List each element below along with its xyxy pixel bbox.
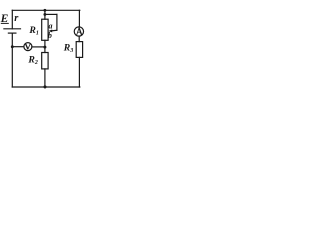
battery long plate bbox=[4, 28, 21, 30]
resistor R3 bbox=[76, 42, 82, 58]
svg-text:a: a bbox=[49, 22, 53, 31]
wire slider vertical bbox=[56, 14, 58, 30]
wire slider arrow shaft bbox=[52, 29, 57, 32]
wire R1 to node bbox=[44, 40, 46, 52]
wire R2 to bottom rail bbox=[44, 69, 46, 87]
resistor R2 bbox=[42, 53, 48, 69]
wire slider horizontal bbox=[45, 13, 57, 15]
node top junction bbox=[43, 9, 46, 12]
battery short plate bbox=[8, 32, 16, 34]
wire voltmeter left bbox=[12, 46, 24, 48]
slider arrowhead bbox=[48, 30, 52, 33]
node slider junction bbox=[43, 13, 46, 16]
rheostat R1 bbox=[42, 19, 48, 40]
svg-text:b: b bbox=[48, 31, 52, 40]
wire right rail upper bbox=[78, 10, 80, 27]
wire top rail bbox=[12, 9, 80, 11]
voltmeter V bbox=[24, 43, 32, 51]
label V in voltmeter bbox=[26, 44, 30, 49]
label A in ammeter bbox=[77, 28, 82, 35]
wire bottom rail bbox=[12, 86, 80, 88]
wire right rail lower bbox=[78, 57, 80, 87]
label E underline bbox=[1, 22, 9, 24]
wire middle branch top bbox=[44, 10, 46, 19]
wire voltmeter right bbox=[32, 46, 45, 48]
wire left rail lower bbox=[11, 33, 13, 87]
wire ammeter to R3 bbox=[78, 36, 80, 41]
node R1 R2 junction bbox=[43, 46, 46, 49]
node left rail voltmeter junction bbox=[11, 45, 14, 48]
node bottom rail junction bbox=[43, 85, 46, 88]
ammeter A bbox=[74, 27, 83, 36]
wire left rail upper bbox=[11, 10, 13, 29]
